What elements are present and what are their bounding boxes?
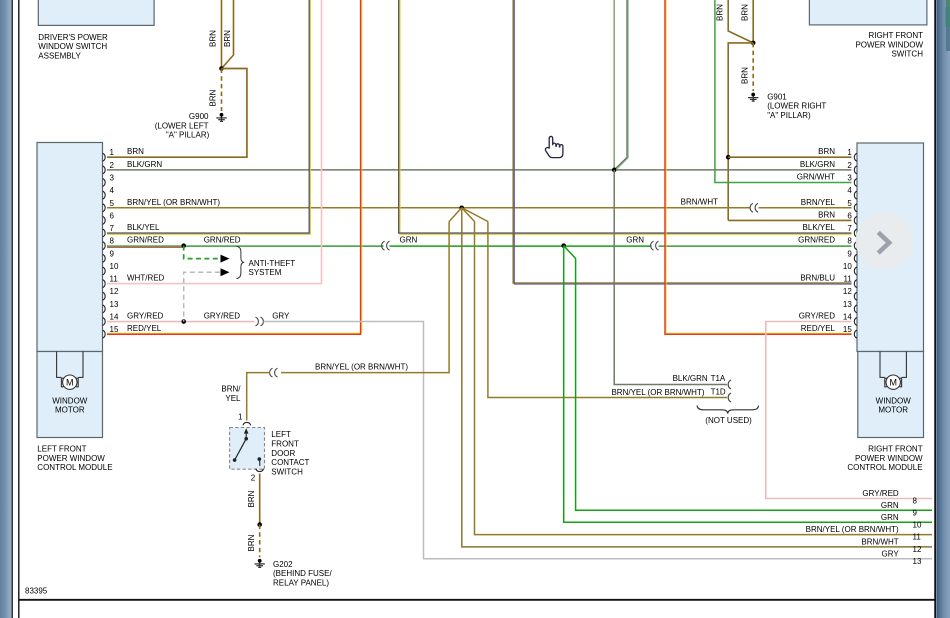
svg-text:1: 1 <box>238 412 243 421</box>
svg-text:T1A: T1A <box>711 374 726 383</box>
wire BLK/GRN vertical jog from top <box>615 0 628 171</box>
svg-text:(LOWER LEFT: (LOWER LEFT <box>155 121 209 130</box>
svg-text:BRN: BRN <box>741 4 750 21</box>
svg-text:DOOR: DOOR <box>271 449 295 458</box>
left front door contact switch box <box>230 428 265 470</box>
svg-text:9: 9 <box>913 508 918 517</box>
svg-text:1: 1 <box>110 148 115 157</box>
svg-text:2: 2 <box>110 161 115 170</box>
wire BRN to right pin6 <box>728 219 851 221</box>
right scrollbar strip <box>937 0 950 618</box>
pin 3 right connector <box>854 178 857 186</box>
svg-text:12: 12 <box>913 545 922 554</box>
page right border <box>934 0 936 618</box>
wire BRN dashed to ground G901 <box>752 43 754 91</box>
ground G202 <box>258 559 262 563</box>
svg-text:8: 8 <box>110 237 115 246</box>
wire fan vertical 1 to door switch <box>281 222 449 373</box>
window motor <box>56 352 58 378</box>
svg-text:GRN: GRN <box>400 236 418 245</box>
svg-text:BLK/YEL: BLK/YEL <box>127 223 160 232</box>
right front power window control module body <box>858 352 924 438</box>
driver's power window switch assembly box <box>38 0 154 25</box>
svg-text:SYSTEM: SYSTEM <box>249 268 282 277</box>
svg-text:8: 8 <box>913 497 918 506</box>
pin 7 left connector <box>103 229 106 237</box>
pin 1 right connector <box>854 153 857 161</box>
wire GRN vertical upper at 614 <box>613 0 615 170</box>
pin 7 right connector <box>854 229 857 237</box>
svg-text:9: 9 <box>847 249 852 258</box>
svg-text:2: 2 <box>251 473 256 482</box>
svg-text:GRY/RED: GRY/RED <box>127 312 164 321</box>
svg-text:7: 7 <box>110 224 115 233</box>
svg-text:BRN/YEL (OR BRN/WHT): BRN/YEL (OR BRN/WHT) <box>315 363 408 372</box>
inline connector pin14 <box>256 317 259 326</box>
svg-text:BRN/YEL (OR BRN/WHT): BRN/YEL (OR BRN/WHT) <box>611 388 704 397</box>
svg-text:BRN/: BRN/ <box>221 385 241 394</box>
wire RED/YEL right from top to pin15 <box>666 0 851 333</box>
pin 12 left connector <box>103 292 106 300</box>
pin 3 left connector <box>103 178 106 186</box>
wire BRN/YEL pin5 left-right <box>107 207 751 209</box>
svg-text:(LOWER RIGHT: (LOWER RIGHT <box>767 102 826 111</box>
svg-text:BRN/YEL (OR BRN/WHT): BRN/YEL (OR BRN/WHT) <box>127 198 220 207</box>
pin 8 left connector <box>103 242 106 250</box>
svg-text:BRN/WHT: BRN/WHT <box>681 198 718 207</box>
wire GRN diagonal down to exit 9 <box>564 246 932 511</box>
svg-text:14: 14 <box>843 313 852 322</box>
svg-text:2: 2 <box>847 161 852 170</box>
wire BRN/YEL pin5 stub right <box>759 207 852 209</box>
svg-text:MOTOR: MOTOR <box>55 406 85 415</box>
svg-text:3: 3 <box>847 173 852 182</box>
arrowhead gray <box>221 268 230 276</box>
svg-text:ANTI-THEFT: ANTI-THEFT <box>249 259 296 268</box>
right front power window control module connector box <box>857 143 924 352</box>
wire GRN/WHT from top to right pin3 <box>715 0 852 183</box>
svg-text:BRN/YEL (OR BRN/WHT): BRN/YEL (OR BRN/WHT) <box>806 525 899 534</box>
arrowhead green <box>221 255 230 263</box>
wire BLK/GRN pin2 left-right <box>107 169 852 171</box>
svg-text:5: 5 <box>110 199 115 208</box>
wire GRN/RED pin8 left segment <box>107 245 384 247</box>
svg-text:T1D: T1D <box>711 387 726 396</box>
pin 14 left connector <box>103 318 106 326</box>
node junction right pin1 <box>726 155 731 160</box>
svg-text:POWER WINDOW: POWER WINDOW <box>37 454 105 463</box>
svg-text:6: 6 <box>847 211 852 220</box>
node junction pin8 <box>181 243 186 248</box>
wire BRN second vertical with diagonal <box>222 0 234 69</box>
svg-text:WINDOW: WINDOW <box>52 396 88 405</box>
svg-text:"A" PILLAR): "A" PILLAR) <box>767 111 811 120</box>
svg-text:3: 3 <box>110 173 115 182</box>
inline connector door switch wire <box>270 368 273 377</box>
node junction BRN left <box>219 66 224 71</box>
page bottom border <box>19 599 935 601</box>
svg-text:CONTROL MODULE: CONTROL MODULE <box>37 463 112 472</box>
wire BLK/YEL right pin7 from top <box>400 0 852 234</box>
svg-text:(BEHIND FUSE/: (BEHIND FUSE/ <box>273 569 332 578</box>
node junction GRN <box>561 243 566 248</box>
svg-text:9: 9 <box>110 249 115 258</box>
switch symbol <box>245 433 247 439</box>
pin 4 left connector <box>103 191 106 199</box>
svg-text:WHT/RED: WHT/RED <box>127 274 165 283</box>
mouse hand cursor <box>545 136 562 157</box>
previous page edge line <box>11 0 13 618</box>
svg-text:RIGHT FRONT: RIGHT FRONT <box>868 445 923 454</box>
svg-text:7: 7 <box>847 224 852 233</box>
svg-text:RELAY PANEL): RELAY PANEL) <box>273 578 329 587</box>
wire BRN vertical right straight <box>752 0 754 43</box>
pin 2 door switch <box>256 469 264 472</box>
svg-text:BRN/YEL: BRN/YEL <box>801 198 836 207</box>
svg-text:BRN/WHT: BRN/WHT <box>861 537 898 546</box>
inline connector GRN left <box>382 241 385 250</box>
svg-text:13: 13 <box>110 300 119 309</box>
svg-text:11: 11 <box>843 275 852 284</box>
svg-text:FRONT: FRONT <box>271 440 299 449</box>
left front power window control module connector box <box>37 143 103 352</box>
svg-text:BRN: BRN <box>247 534 256 551</box>
svg-text:ASSEMBLY: ASSEMBLY <box>38 51 81 60</box>
svg-text:BRN: BRN <box>716 4 725 21</box>
svg-text:4: 4 <box>110 186 115 195</box>
svg-text:BRN: BRN <box>818 147 835 156</box>
connector arc T1D <box>728 393 731 402</box>
brace not used <box>697 406 759 414</box>
svg-text:BRN: BRN <box>741 67 750 84</box>
svg-text:5: 5 <box>847 199 852 208</box>
wire fan vertical 4 to T1D <box>488 222 727 398</box>
node junction BRN/YEL fan <box>459 205 464 210</box>
svg-text:G901: G901 <box>767 92 787 101</box>
pin 15 left connector <box>103 330 106 338</box>
svg-text:(NOT USED): (NOT USED) <box>705 416 752 425</box>
svg-text:MOTOR: MOTOR <box>878 406 908 415</box>
inline connector GRN right <box>651 241 654 250</box>
svg-text:BRN: BRN <box>209 89 218 106</box>
window motor <box>879 352 881 378</box>
pin 13 left connector <box>103 305 106 313</box>
svg-text:LEFT: LEFT <box>271 430 291 439</box>
svg-text:GRY/RED: GRY/RED <box>204 312 241 321</box>
svg-text:BRN: BRN <box>247 490 256 507</box>
svg-text:4: 4 <box>847 186 852 195</box>
svg-text:G202: G202 <box>273 560 293 569</box>
svg-text:GRN/RED: GRN/RED <box>798 236 835 245</box>
pin 9 right connector <box>854 254 857 262</box>
pin 11 right connector <box>854 280 857 288</box>
svg-text:RED/YEL: RED/YEL <box>127 324 162 333</box>
wire BRN vertical right pair diag <box>728 0 753 43</box>
ground G901 <box>751 93 755 97</box>
svg-text:GRN/WHT: GRN/WHT <box>797 172 835 181</box>
svg-text:BLK/GRN: BLK/GRN <box>800 160 835 169</box>
wire RED/YEL left pin15 up <box>107 0 362 333</box>
pin 2 right connector <box>854 166 857 174</box>
svg-text:GRY/RED: GRY/RED <box>862 489 899 498</box>
wire fan diagonals <box>449 208 462 222</box>
svg-text:M: M <box>66 377 74 387</box>
svg-text:GRN: GRN <box>881 513 899 522</box>
svg-text:SWITCH: SWITCH <box>891 50 923 59</box>
svg-text:10: 10 <box>843 262 852 271</box>
svg-text:1: 1 <box>847 148 852 157</box>
wire GRN to right pin8 <box>659 245 852 247</box>
svg-text:M: M <box>889 377 897 387</box>
wire BRN dashed to G202 <box>259 525 261 558</box>
svg-text:G900: G900 <box>189 112 209 121</box>
pin 8 right connector <box>854 242 857 250</box>
svg-text:YEL: YEL <box>225 394 241 403</box>
wire BRN to right pin1 <box>728 156 851 158</box>
wire GRN middle segment <box>390 245 652 247</box>
svg-text:POWER WINDOW: POWER WINDOW <box>855 40 923 49</box>
wire BRN/YEL corner down to switch pin1 <box>247 373 270 421</box>
pin 5 left connector <box>103 204 106 212</box>
svg-text:GRY: GRY <box>272 312 290 321</box>
wire fan vertical 3 to exit 11 <box>475 222 933 535</box>
right front power window switch box <box>809 0 927 25</box>
brace anti-theft <box>237 246 245 278</box>
svg-text:11: 11 <box>913 533 922 542</box>
svg-text:BLK/YEL: BLK/YEL <box>803 223 836 232</box>
node junction BRN right <box>751 41 756 46</box>
wire GRY/RED pin14 <box>107 321 255 323</box>
svg-text:83395: 83395 <box>25 587 48 596</box>
svg-text:GRY: GRY <box>881 549 899 558</box>
svg-text:14: 14 <box>110 313 119 322</box>
pin 5 right connector <box>854 204 857 212</box>
svg-text:13: 13 <box>913 557 922 566</box>
pin 4 right connector <box>854 191 857 199</box>
node junction BRN switch <box>257 522 262 527</box>
svg-text:BRN: BRN <box>223 30 232 47</box>
svg-text:11: 11 <box>110 275 119 284</box>
svg-text:BRN: BRN <box>209 30 218 47</box>
svg-text:BLK/GRN: BLK/GRN <box>673 374 708 383</box>
node junction BLK/GRN <box>612 168 617 173</box>
svg-text:6: 6 <box>110 211 115 220</box>
pin 11 left connector <box>103 280 106 288</box>
svg-text:15: 15 <box>110 325 119 334</box>
svg-text:BRN: BRN <box>818 210 835 219</box>
wire BLK/GRN down to T1A <box>614 170 727 385</box>
svg-text:GRY/RED: GRY/RED <box>799 312 836 321</box>
svg-text:10: 10 <box>913 520 922 529</box>
wire BRN vertical from switch assembly <box>221 0 223 69</box>
svg-text:10: 10 <box>110 262 119 271</box>
svg-text:DRIVER'S POWER: DRIVER'S POWER <box>38 33 108 42</box>
connector arc T1A <box>728 380 731 389</box>
pin 13 right connector <box>854 305 857 313</box>
pin 9 left connector <box>103 254 106 262</box>
svg-text:RED/YEL: RED/YEL <box>801 324 836 333</box>
svg-text:BRN: BRN <box>127 147 144 156</box>
svg-text:GRN: GRN <box>626 236 644 245</box>
pin 12 right connector <box>854 292 857 300</box>
wire dashed GRY anti-theft <box>184 272 220 321</box>
svg-text:POWER WINDOW: POWER WINDOW <box>855 454 923 463</box>
wire BRN junction to pin1 corner <box>107 69 247 158</box>
wire WHT/RED pin11 up <box>107 0 322 284</box>
left front power window control module body <box>37 352 103 438</box>
pin 1 left connector <box>103 153 106 161</box>
svg-text:CONTACT: CONTACT <box>271 458 309 467</box>
svg-text:GRN: GRN <box>881 501 899 510</box>
ground G900 <box>220 113 224 117</box>
svg-text:BLK/GRN: BLK/GRN <box>127 160 162 169</box>
carousel next button <box>856 212 914 270</box>
svg-text:"A" PILLAR): "A" PILLAR) <box>166 131 210 140</box>
wire BRN junction down to pin1/pin6 <box>728 43 753 221</box>
wire GRY pin14 to right down <box>264 322 933 559</box>
wire BRN dashed to ground G900 <box>221 69 223 112</box>
pin 2 left connector <box>103 166 106 174</box>
wire BRN switch pin2 down <box>259 474 261 525</box>
svg-text:RIGHT FRONT: RIGHT FRONT <box>868 31 923 40</box>
svg-text:BRN/BLU: BRN/BLU <box>800 274 835 283</box>
wire GRN down to exit 10 <box>564 246 932 523</box>
svg-text:WINDOW SWITCH: WINDOW SWITCH <box>38 42 107 51</box>
pin 10 right connector <box>854 267 857 275</box>
node junction pin14 dashed <box>181 319 186 324</box>
pin 6 right connector <box>854 216 857 224</box>
wire BLK/YEL left pin7 up <box>107 0 310 234</box>
wire GRY/RED right pin14 to exit 8 <box>766 322 932 499</box>
pin 14 right connector <box>854 318 857 326</box>
svg-text:WINDOW: WINDOW <box>876 396 912 405</box>
svg-text:GRN/RED: GRN/RED <box>127 236 164 245</box>
svg-text:CONTROL MODULE: CONTROL MODULE <box>847 463 922 472</box>
pin 10 left connector <box>103 267 106 275</box>
pin 6 left connector <box>103 216 106 224</box>
wire fan vertical 2 to exit 12 <box>462 222 932 547</box>
svg-text:LEFT FRONT: LEFT FRONT <box>37 445 86 454</box>
wire dashed GRN anti-theft <box>184 246 220 259</box>
pin 15 right connector <box>854 330 857 338</box>
svg-text:13: 13 <box>843 300 852 309</box>
svg-text:12: 12 <box>843 287 852 296</box>
svg-text:12: 12 <box>110 287 119 296</box>
svg-text:GRN/RED: GRN/RED <box>204 236 241 245</box>
svg-text:15: 15 <box>843 325 852 334</box>
inline connector pin5 <box>750 203 753 212</box>
svg-text:8: 8 <box>847 237 852 246</box>
svg-text:SWITCH: SWITCH <box>271 467 303 476</box>
page left border <box>18 0 20 618</box>
wire BRN/BLU from top to right pin11 <box>514 0 851 284</box>
